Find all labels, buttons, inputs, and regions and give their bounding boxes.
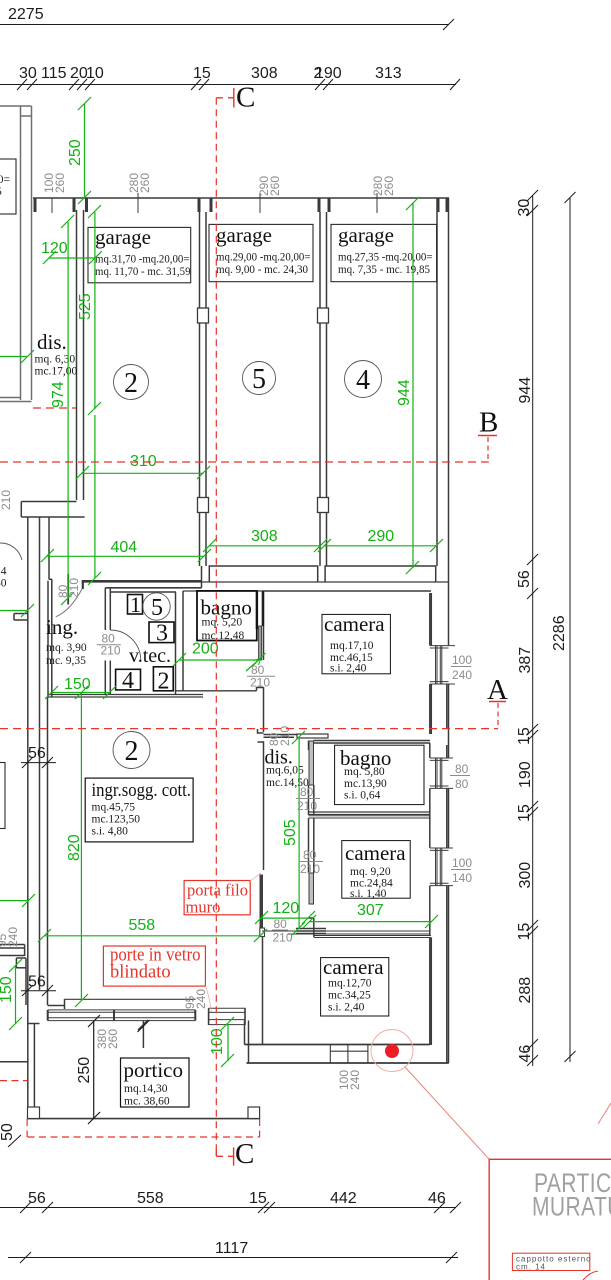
dim 290 <box>318 539 443 552</box>
svg-text:C: C <box>235 1138 254 1170</box>
wall ing left outer <box>48 517 50 579</box>
svg-text:80: 80 <box>303 848 317 862</box>
svg-text:5: 5 <box>252 364 266 395</box>
circled 2 (garage) <box>114 365 149 400</box>
pilaster squares garage5/4 <box>318 308 329 323</box>
bottom dim line 1 <box>0 1207 456 1209</box>
svg-text:300: 300 <box>517 862 534 889</box>
room label bagno 1 <box>197 591 257 642</box>
wall garage5/4 party <box>319 212 321 566</box>
room label camera 3 <box>321 955 389 1016</box>
dim 820 <box>75 686 88 1007</box>
svg-text:mq. 5,20: mq. 5,20 <box>202 617 243 629</box>
svg-text:100: 100 <box>452 653 472 667</box>
bagno2 door leaf vertical <box>309 741 314 785</box>
room label camera 2 <box>342 841 410 900</box>
portico 380/260 centre mark <box>142 1021 144 1048</box>
fraction 80/210 (porta filo door) <box>272 917 293 945</box>
svg-text:210: 210 <box>273 931 293 945</box>
svg-text:mc.123,50: mc.123,50 <box>92 814 141 826</box>
circled 5 (garage) <box>243 362 276 396</box>
wall camera-top room <box>263 590 431 592</box>
svg-text:210: 210 <box>67 578 81 598</box>
wall camera2 bottom <box>262 930 430 932</box>
garage5 door recess <box>209 566 317 582</box>
wall ing/v.tec <box>104 588 106 630</box>
room label garage 4 <box>331 223 437 282</box>
svg-text:blindato: blindato <box>110 963 171 983</box>
portico left wall <box>27 517 29 1118</box>
svg-text:260: 260 <box>268 176 282 196</box>
svg-text:1117: 1117 <box>215 1240 248 1257</box>
fraction 80/210 (camera2 door) <box>299 848 323 876</box>
svg-text:525: 525 <box>77 293 94 320</box>
wall dis/camera2 <box>308 818 310 873</box>
camera-top left door leaf <box>256 591 258 629</box>
dim 974 <box>61 215 74 605</box>
svg-text:46: 46 <box>517 1045 534 1063</box>
svg-text:mq.27,35 -mq.20,00=: mq.27,35 -mq.20,00= <box>338 252 433 264</box>
dim 200 (bagno1) <box>173 653 266 666</box>
svg-text:mq.29,00 -mq.20,00=: mq.29,00 -mq.20,00= <box>216 252 311 264</box>
svg-text:2: 2 <box>314 65 323 82</box>
svg-text:120: 120 <box>273 900 300 917</box>
dis. niche jogs <box>258 729 264 733</box>
svg-text:ingr.sogg. cott.: ingr.sogg. cott. <box>92 780 192 801</box>
svg-text:mq. 7,35 - mc. 19,85: mq. 7,35 - mc. 19,85 <box>338 264 430 276</box>
svg-text:210: 210 <box>300 862 320 876</box>
svg-text:80: 80 <box>455 762 469 776</box>
fraction 80/210 (bagno1 door) <box>247 663 275 690</box>
svg-text:mq.17,10: mq.17,10 <box>330 640 374 652</box>
svg-text:190: 190 <box>517 761 534 788</box>
svg-text:210: 210 <box>297 799 317 813</box>
svg-text:250: 250 <box>67 139 84 166</box>
living room bottom wall <box>65 998 196 1000</box>
dim 100 (portico) <box>221 1017 234 1067</box>
door/window centre marks on top wall <box>52 193 377 213</box>
svg-text:820: 820 <box>66 834 83 861</box>
green line left (ing arrow) <box>0 894 35 907</box>
svg-text:mq.45,75: mq.45,75 <box>92 802 136 814</box>
svg-text:3: 3 <box>156 621 168 647</box>
svg-text:2275: 2275 <box>8 6 44 23</box>
wall closet/bagno1 <box>182 591 184 691</box>
dim 944 <box>406 197 419 574</box>
wall top outer (garage row) <box>33 197 449 199</box>
svg-text:100: 100 <box>209 1028 226 1055</box>
room label bagno 2 <box>335 745 424 804</box>
dim 525 <box>88 205 101 585</box>
svg-text:mq.12,70: mq.12,70 <box>328 978 372 990</box>
wall neighbor room bottom <box>0 397 21 399</box>
svg-text:250: 250 <box>76 1057 93 1084</box>
svg-text:80: 80 <box>455 777 469 791</box>
svg-text:A: A <box>487 674 508 706</box>
dim 558 <box>38 929 267 942</box>
svg-text:mc.34,25: mc.34,25 <box>328 990 371 1002</box>
svg-text:120: 120 <box>41 240 68 257</box>
wall dis/bagno2 <box>308 741 310 751</box>
svg-text:56: 56 <box>28 974 46 991</box>
wall camera3 left <box>313 918 315 937</box>
svg-text:mq. 9,00 - mc. 24,30: mq. 9,00 - mc. 24,30 <box>216 264 308 276</box>
svg-text:15: 15 <box>516 727 533 745</box>
svg-text:56: 56 <box>516 570 533 588</box>
svg-text:260: 260 <box>53 173 67 193</box>
svg-text:mq. 11,70 - mc. 31,59: mq. 11,70 - mc. 31,59 <box>95 266 191 278</box>
svg-text:B: B <box>479 407 498 439</box>
svg-text:80: 80 <box>274 917 288 931</box>
wall camera-top left <box>263 591 265 660</box>
section C marker bottom <box>216 1148 233 1166</box>
svg-text:portico: portico <box>124 1058 183 1082</box>
svg-text:mc.17,00: mc.17,00 <box>35 366 78 378</box>
svg-text:mc. 38,60: mc. 38,60 <box>124 1096 170 1108</box>
wall step entrance recess <box>21 501 76 503</box>
windows right wall: camera-top 100/240 <box>430 646 455 684</box>
dim 150 (ing.) <box>45 686 116 699</box>
svg-text:313: 313 <box>375 65 402 82</box>
wall garage2 left (party wall with neighbour dis.) <box>76 210 78 500</box>
svg-text:mq. 5,80: mq. 5,80 <box>344 766 385 778</box>
window bagno2 80/80 <box>430 758 453 788</box>
second top dim line <box>0 84 456 86</box>
fraction 80/80 (bagno2 window) <box>450 762 470 791</box>
svg-text:cm. 14: cm. 14 <box>516 1263 546 1272</box>
svg-text:46: 46 <box>428 1190 446 1207</box>
svg-text:15: 15 <box>249 1190 267 1207</box>
svg-text:15: 15 <box>193 65 211 82</box>
svg-text:4: 4 <box>122 668 134 694</box>
svg-text:150: 150 <box>64 676 91 693</box>
boxed 2 <box>153 667 173 695</box>
svg-text:200: 200 <box>192 641 219 658</box>
dim 120 (porta) <box>255 911 315 924</box>
neighbour portico bottom <box>0 1061 28 1063</box>
section C marker top <box>216 88 234 108</box>
svg-text:140: 140 <box>452 871 472 885</box>
portico bottom <box>28 1118 260 1120</box>
svg-text:260: 260 <box>382 176 396 196</box>
wall garage2/5 party <box>199 212 201 566</box>
portico roof dashed outline <box>0 1081 260 1137</box>
pilaster squares garage2/5 <box>198 308 209 323</box>
svg-text:210: 210 <box>0 490 13 510</box>
room label garage 5 <box>209 223 313 282</box>
fraction 100/140 (camera2 window) <box>451 856 472 885</box>
svg-text:558: 558 <box>129 917 156 934</box>
wall left party top <box>0 106 32 402</box>
section line B <box>0 461 489 463</box>
detail callout circle <box>371 1030 413 1072</box>
dim 56 left upper <box>21 757 56 768</box>
svg-text:210: 210 <box>101 644 121 658</box>
svg-text:308: 308 <box>251 65 278 82</box>
svg-text:100: 100 <box>452 856 472 870</box>
fraction 80/210 (bagno2 door) <box>296 785 320 813</box>
svg-text:garage: garage <box>216 223 272 247</box>
svg-text:garage: garage <box>95 225 151 249</box>
svg-text:C: C <box>236 82 255 114</box>
svg-text:240: 240 <box>194 989 208 1009</box>
svg-text:5: 5 <box>0 186 2 198</box>
section line C vertical <box>215 98 217 1149</box>
svg-text:15: 15 <box>516 923 533 941</box>
svg-text:56: 56 <box>28 745 46 762</box>
wall camera2 top <box>309 815 431 817</box>
svg-text:s.i. 1,40: s.i. 1,40 <box>350 888 387 900</box>
wall neighbour step <box>14 613 28 615</box>
svg-text:15: 15 <box>516 804 533 822</box>
svg-text:2: 2 <box>158 669 170 695</box>
neighbor label box fragment <box>0 159 16 214</box>
wall bottom outer <box>247 1062 449 1064</box>
svg-text:2: 2 <box>124 368 138 399</box>
red leader fragment right edge <box>598 1103 611 1124</box>
porta filo muro door <box>260 875 264 928</box>
left wall window stub <box>0 944 25 946</box>
svg-text:camera: camera <box>345 841 406 865</box>
svg-text:50: 50 <box>0 1123 16 1141</box>
svg-text:dis.: dis. <box>37 330 67 354</box>
camera2 door leaf <box>309 873 314 904</box>
detail leader line <box>405 1067 489 1159</box>
dim 307 <box>303 915 438 928</box>
wall camera3 top <box>314 935 431 937</box>
boxed 3 <box>149 621 174 647</box>
svg-text:974: 974 <box>50 381 67 408</box>
top dim line 2275 <box>0 24 449 26</box>
section line A <box>0 728 498 730</box>
svg-text:ing.: ing. <box>46 615 78 639</box>
wall bagno2/camera2 right <box>429 743 431 758</box>
svg-text:00=: 00= <box>0 174 10 186</box>
green arrow near dis door <box>246 658 261 671</box>
svg-text:14: 14 <box>0 566 7 578</box>
door leaf camera-top bottom (horizontal) <box>297 734 328 738</box>
section B jog left <box>33 407 76 409</box>
small window right of glazing <box>209 1008 246 1025</box>
dim 505 <box>292 731 305 935</box>
svg-text:240: 240 <box>348 1070 362 1090</box>
svg-text:mq.31,70 -mq.20,00=: mq.31,70 -mq.20,00= <box>95 254 190 266</box>
black dim 250 portico <box>88 1015 150 1124</box>
room label portico <box>121 1058 190 1108</box>
room label ingr.sogg. cott. <box>85 778 193 842</box>
dim 150 (left bottom) <box>9 959 22 1030</box>
door arc ing. entrance <box>56 589 83 617</box>
boxed 1 <box>128 592 143 617</box>
svg-text:505: 505 <box>282 819 299 846</box>
svg-text:10: 10 <box>86 65 104 82</box>
dim 250 top-left <box>78 97 91 204</box>
fraction 80/210 (v.tec door) <box>97 632 121 658</box>
svg-text:30: 30 <box>0 578 7 590</box>
glazing band (porte in vetro) <box>48 1010 196 1021</box>
svg-text:558: 558 <box>137 1190 164 1207</box>
wall bagno1 top <box>183 590 263 592</box>
svg-text:mq.14,30: mq.14,30 <box>124 1083 168 1095</box>
svg-text:camera: camera <box>323 955 384 979</box>
svg-text:s.i. 4,80: s.i. 4,80 <box>92 826 129 838</box>
svg-text:308: 308 <box>251 528 278 545</box>
svg-text:288: 288 <box>517 977 534 1004</box>
right inner ruler <box>532 196 534 1066</box>
svg-text:30: 30 <box>19 65 37 82</box>
portico right wall <box>244 1021 246 1045</box>
dim 310 <box>76 466 210 479</box>
wall top piers <box>35 198 447 212</box>
wall camera-top bottom / bagno2 top <box>264 734 298 736</box>
svg-text:mq.6,05: mq.6,05 <box>266 765 304 777</box>
red label porta filo muro <box>184 873 261 917</box>
svg-text:150: 150 <box>0 976 15 1003</box>
closet top wall <box>110 591 176 593</box>
svg-text:mc.13,90: mc.13,90 <box>344 778 387 790</box>
svg-text:camera: camera <box>324 612 385 636</box>
svg-text:4: 4 <box>356 365 370 396</box>
svg-text:442: 442 <box>330 1190 357 1207</box>
detail callout dot <box>385 1044 399 1058</box>
svg-text:s.i. 0,64: s.i. 0,64 <box>344 790 381 802</box>
wall garage front lower line <box>82 581 450 583</box>
svg-text:2: 2 <box>125 736 139 767</box>
svg-text:260: 260 <box>106 1029 120 1049</box>
wall camera-top right <box>429 593 431 645</box>
svg-text:944: 944 <box>517 377 534 404</box>
svg-text:80: 80 <box>300 785 314 799</box>
detail box <box>489 1159 611 1280</box>
dim 120 top-left <box>43 251 102 264</box>
wall living bottom right passage window <box>296 928 326 930</box>
wall right outer <box>436 198 438 566</box>
svg-text:mc. 9,35: mc. 9,35 <box>46 655 86 667</box>
svg-text:56: 56 <box>28 1190 46 1207</box>
svg-text:mq. 9,20: mq. 9,20 <box>350 866 391 878</box>
svg-text:garage: garage <box>338 223 394 247</box>
dim 404 <box>41 549 211 562</box>
window camera2 100/140 <box>430 848 453 886</box>
bottom dim line 2 (1117) <box>8 1257 458 1259</box>
svg-text:1: 1 <box>130 592 141 617</box>
green line neighbour arrow ing level <box>0 604 34 617</box>
svg-text:v.tec.: v.tec. <box>129 645 171 667</box>
svg-text:260: 260 <box>138 173 152 193</box>
neighbour living box fragment <box>0 763 5 829</box>
closet right wall <box>175 592 177 694</box>
wall garage2 front <box>82 580 202 582</box>
svg-text:240: 240 <box>452 668 472 682</box>
svg-text:mq. 6,30: mq. 6,30 <box>35 354 76 366</box>
camera3 bottom window <box>330 1045 368 1064</box>
svg-text:2286: 2286 <box>551 615 568 651</box>
red label porte in vetro blindato <box>103 946 211 1013</box>
svg-text:muro: muro <box>186 898 221 917</box>
svg-text:307: 307 <box>357 902 384 919</box>
svg-text:387: 387 <box>517 647 534 674</box>
svg-text:404: 404 <box>111 539 138 556</box>
svg-text:115: 115 <box>41 65 67 82</box>
circled 5 small <box>143 593 170 621</box>
svg-text:290: 290 <box>368 528 395 545</box>
green line neighbour arrow <box>0 350 34 363</box>
room label camera top <box>322 612 390 675</box>
svg-text:5: 5 <box>151 595 163 621</box>
wall living left column (unit separation) <box>47 697 49 1005</box>
wall bagno2 bottom <box>309 811 431 813</box>
dim 56 left lower <box>21 985 56 996</box>
green labels <box>0 139 413 1055</box>
circled 2 (living) <box>113 732 150 769</box>
garage4 door recess <box>325 566 436 582</box>
door arc v.tec <box>110 630 141 661</box>
wall camera3 right <box>429 938 431 1046</box>
svg-text:944: 944 <box>396 379 413 406</box>
svg-text:mq. 3,90: mq. 3,90 <box>46 642 87 654</box>
dim 308 <box>203 539 327 552</box>
room label garage 2 <box>88 225 191 283</box>
svg-text:240: 240 <box>6 927 20 947</box>
wall camera3 bottom inner <box>245 1044 430 1046</box>
svg-text:s.i. 2,40: s.i. 2,40 <box>328 1002 365 1014</box>
svg-text:MURATUR: MURATUR <box>532 1192 611 1222</box>
fraction 100/240 (camera top window) <box>451 653 472 682</box>
right outer ruler 2286 <box>569 198 571 1062</box>
svg-text:210: 210 <box>250 676 270 690</box>
wall bagno1 bottom <box>176 690 257 692</box>
circled 4 (garage) <box>345 361 382 398</box>
wall mid band bottom <box>48 694 203 696</box>
svg-text:30: 30 <box>516 199 533 217</box>
door arc neighbour (left edge) <box>0 543 22 560</box>
boxed 4 <box>116 668 141 694</box>
svg-text:s.i. 2,40: s.i. 2,40 <box>330 663 367 675</box>
portico bottom corner squares <box>28 1107 40 1119</box>
